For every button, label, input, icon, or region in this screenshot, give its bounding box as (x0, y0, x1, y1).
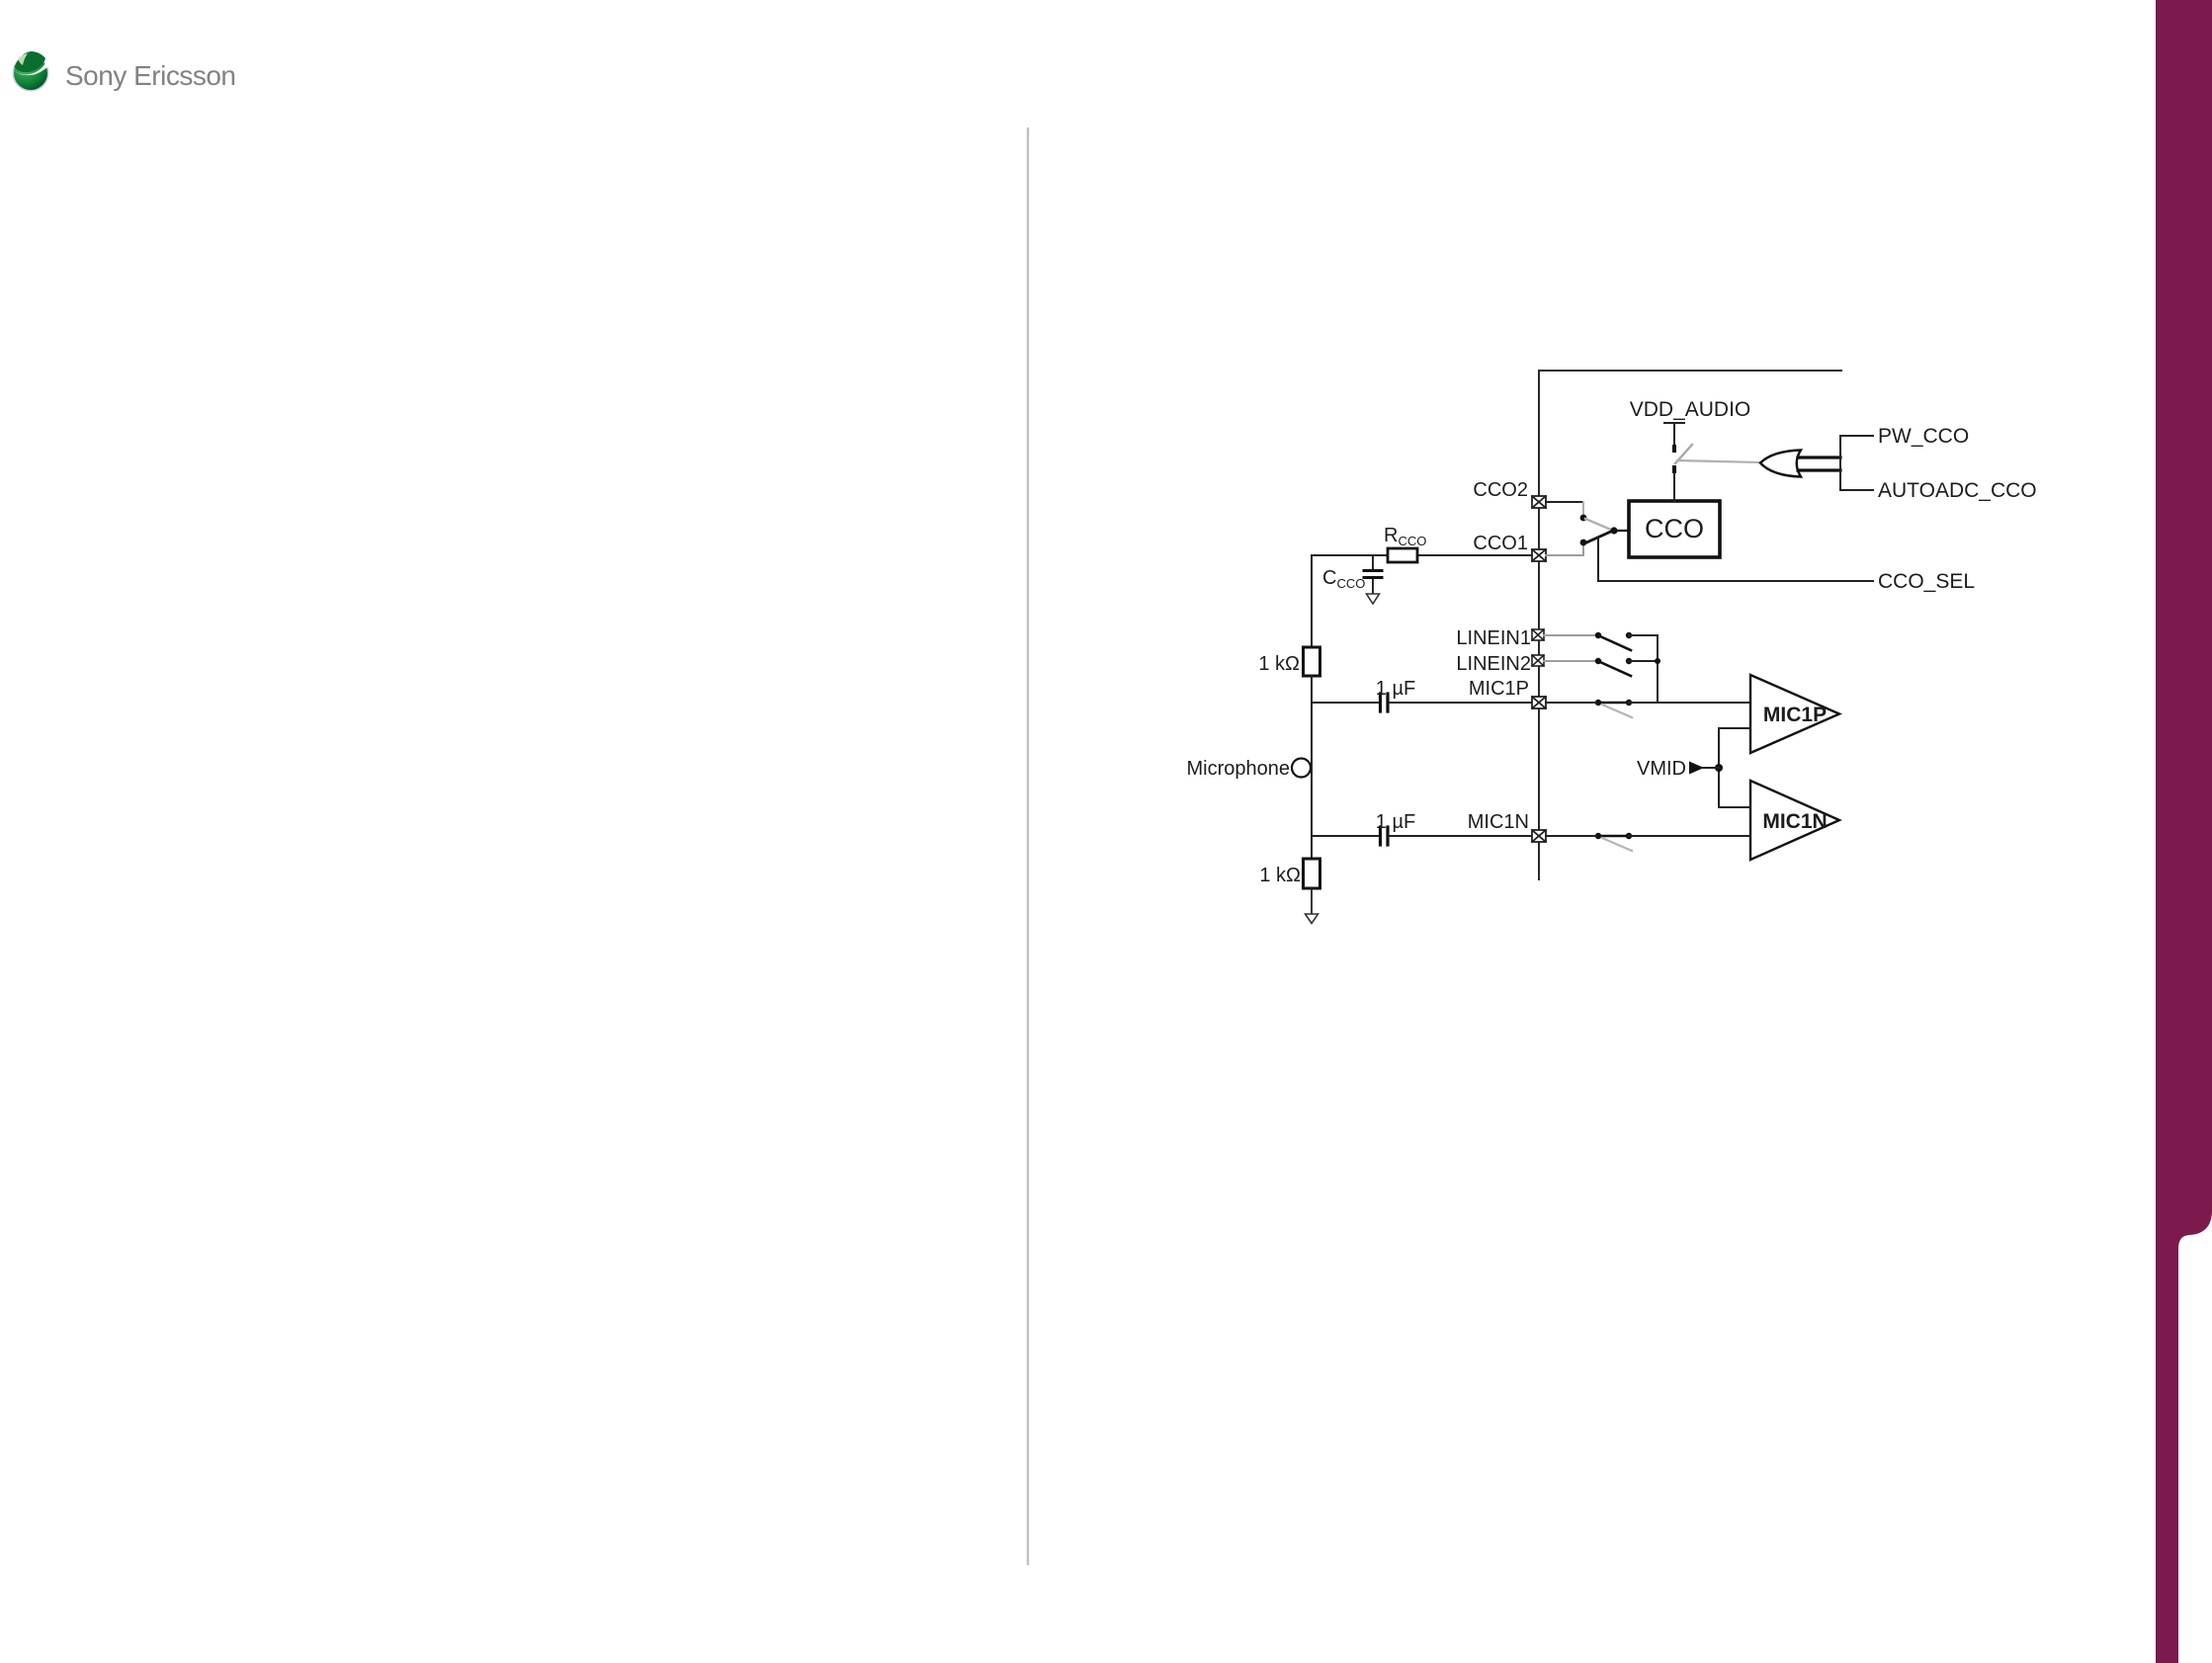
svg-text:1 kΩ: 1 kΩ (1259, 865, 1301, 886)
switch blade LINEIN2 (open) (1600, 662, 1631, 676)
node: CCO1 contact (1580, 540, 1587, 546)
wire: OR input stub bottom (1798, 468, 1840, 471)
resistor R2 1k (1304, 859, 1320, 888)
svg-text:CCCO: CCCO (1322, 567, 1365, 591)
switch blade LINEIN1 (open) (1600, 636, 1631, 650)
wire: common to CCO box (1614, 530, 1629, 532)
switch S1 (VDD to CCO) (1672, 445, 1692, 501)
pin LINEIN2 (1532, 655, 1544, 666)
wire: left branch vertical (1311, 555, 1313, 647)
switch blade CCO select (grey open side) (1585, 519, 1611, 530)
svg-text:1 kΩ: 1 kΩ (1258, 653, 1300, 675)
svg-text:AUTOADC_CCO: AUTOADC_CCO (1878, 479, 2037, 502)
svg-text:LINEIN2: LINEIN2 (1456, 653, 1531, 675)
pin MIC1N (1532, 830, 1546, 842)
wire: MIC1N branch (1312, 835, 1378, 837)
svg-text:CCO: CCO (1645, 514, 1704, 543)
wire: top horizontal (1539, 370, 1841, 372)
node VMID (1715, 764, 1723, 772)
svg-text:Sony Ericsson: Sony Ericsson (65, 60, 235, 91)
op-amp MIC1N (1750, 781, 1839, 860)
wire: MIC1P switch closed (1546, 702, 1598, 704)
switch blade open (grey) (1602, 705, 1632, 717)
svg-text:VMID: VMID (1637, 758, 1686, 780)
wire: Rcco net to CCO1 pin (1417, 554, 1532, 556)
Sony Ericsson logo ball (13, 51, 49, 92)
right maroon sidebar (2156, 0, 2212, 1663)
OR gate U1 (1760, 451, 1801, 477)
svg-text:MIC1N: MIC1N (1762, 810, 1827, 833)
switch blade closed to CCO1 (1584, 531, 1613, 543)
svg-text:CCO1: CCO1 (1473, 533, 1528, 554)
power VDD_AUDIO symbol (1664, 423, 1684, 448)
svg-text:VDD_AUDIO: VDD_AUDIO (1630, 398, 1751, 421)
ground (mic divider) (1306, 914, 1319, 924)
op-amp MIC1P (1750, 675, 1839, 753)
wire: input bracket (1840, 436, 1873, 490)
wire: OR input stub top (1798, 456, 1840, 458)
wire: MIC1P branch (1312, 702, 1378, 704)
ground (Ccco) (1367, 594, 1380, 604)
right circuit labels (1186, 398, 2036, 886)
capacitor C1 1uF (1381, 694, 1389, 711)
wire: main bus vertical (1538, 371, 1540, 879)
capacitor Ccco (1364, 555, 1382, 593)
wire: VMID bracket (1719, 728, 1750, 807)
wire: to amp MIC1P (1629, 702, 1750, 704)
svg-text:Microphone: Microphone (1186, 758, 1290, 780)
microphone MK1 (1292, 759, 1311, 778)
wire (1390, 835, 1532, 837)
wire (1311, 755, 1313, 859)
wire: left node to Rcco (1312, 554, 1388, 556)
node (1595, 833, 1601, 839)
resistor R1 1k (1304, 647, 1320, 676)
svg-text:1 µF: 1 µF (1376, 678, 1415, 700)
centre divider line (1027, 127, 1029, 1565)
wire: CCO2 to switch (1546, 501, 1583, 503)
svg-text:CCO_SEL: CCO_SEL (1878, 570, 1975, 593)
wire (1311, 676, 1313, 760)
svg-text:LINEIN1: LINEIN1 (1456, 627, 1531, 649)
svg-text:PW_CCO: PW_CCO (1878, 425, 1969, 448)
svg-text:MIC1P: MIC1P (1763, 704, 1827, 726)
wire (1629, 634, 1658, 636)
wire: to amp MIC1N (1629, 835, 1750, 837)
wire: LINEIN2 to contact (1544, 660, 1598, 662)
CCO box (1629, 501, 1720, 557)
svg-text:CCO2: CCO2 (1473, 479, 1528, 501)
wire: VDD stem into CCO (1673, 473, 1675, 501)
node: switch common (1610, 527, 1617, 534)
wire (1390, 702, 1532, 704)
resistor Rcco (1388, 548, 1417, 562)
wire: LINEIN collector vertical (1629, 635, 1658, 661)
pin MIC1P (1532, 697, 1546, 708)
node (1595, 700, 1601, 706)
wire: CCO1 pin to contact (1546, 554, 1583, 556)
wire: to ground (1311, 888, 1313, 913)
capacitor C2 1uF (1381, 827, 1389, 845)
VMID arrow (1689, 762, 1704, 775)
pin LINEIN1 (1532, 629, 1544, 640)
pin CCO1 (1532, 549, 1546, 561)
node: CCO2 contact (1580, 515, 1587, 522)
wire: switch to OR gate (grey) (1677, 460, 1760, 462)
svg-text:1 µF: 1 µF (1376, 811, 1415, 833)
wire: CCO_SEL control (1598, 538, 1873, 581)
wire: LINEIN1 to contact (1544, 634, 1598, 636)
svg-text:MIC1P: MIC1P (1469, 678, 1529, 700)
svg-text:MIC1N: MIC1N (1468, 811, 1529, 833)
switch blade open (grey) (1602, 838, 1632, 851)
pin CCO2 (1532, 496, 1546, 508)
svg-text:RCCO: RCCO (1384, 525, 1426, 548)
